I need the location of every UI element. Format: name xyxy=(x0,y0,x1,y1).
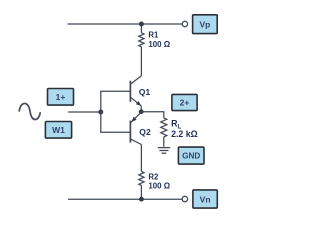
wire Q1 base xyxy=(100,90,130,92)
label GND xyxy=(178,147,204,164)
transistor Q1 xyxy=(130,76,141,106)
wire input xyxy=(68,111,101,113)
svg-text:1+: 1+ xyxy=(56,92,66,102)
svg-text:Vp: Vp xyxy=(199,19,210,29)
label 1+ xyxy=(48,89,74,106)
wire Q2 collector to R2 xyxy=(140,145,142,172)
wire Q2 base xyxy=(100,131,130,133)
svg-text:Q1: Q1 xyxy=(139,87,151,97)
node top rail junction xyxy=(139,22,144,27)
wire output node to RL xyxy=(141,112,164,118)
label Vp xyxy=(193,15,218,34)
value label RL 2.2 kohm xyxy=(171,119,198,139)
svg-text:Vn: Vn xyxy=(200,194,211,204)
svg-text:W1: W1 xyxy=(52,125,65,135)
svg-text:100 Ω: 100 Ω xyxy=(148,181,170,190)
svg-text:R1: R1 xyxy=(148,31,159,40)
wire bottom rail xyxy=(68,198,182,200)
svg-text:2+: 2+ xyxy=(180,98,190,108)
label W1 xyxy=(45,122,71,139)
node output xyxy=(139,109,144,114)
wire base bus xyxy=(100,91,102,132)
terminal Vn xyxy=(182,196,187,201)
terminal Vp xyxy=(182,21,187,26)
svg-text:Q2: Q2 xyxy=(139,127,151,137)
wire Q1 emitter to output node xyxy=(140,106,142,112)
source W1 sine symbol xyxy=(19,103,40,119)
svg-text:R2: R2 xyxy=(148,173,159,182)
svg-text:GND: GND xyxy=(182,152,200,161)
wire top rail xyxy=(68,23,183,25)
label 2+ xyxy=(172,94,197,110)
value label R2 100 ohm xyxy=(148,173,170,191)
svg-text:100 Ω: 100 Ω xyxy=(148,40,170,49)
value label R1 100 ohm xyxy=(148,31,170,49)
label Vn xyxy=(193,190,217,208)
svg-text:2.2 kΩ: 2.2 kΩ xyxy=(171,129,198,139)
resistor R1 xyxy=(139,24,144,76)
node input junction xyxy=(98,110,103,115)
transistor Q2 xyxy=(130,112,141,144)
node bottom rail junction xyxy=(139,197,144,202)
resistor R2 xyxy=(139,171,144,199)
ground xyxy=(158,148,171,154)
resistor RL xyxy=(161,118,167,147)
